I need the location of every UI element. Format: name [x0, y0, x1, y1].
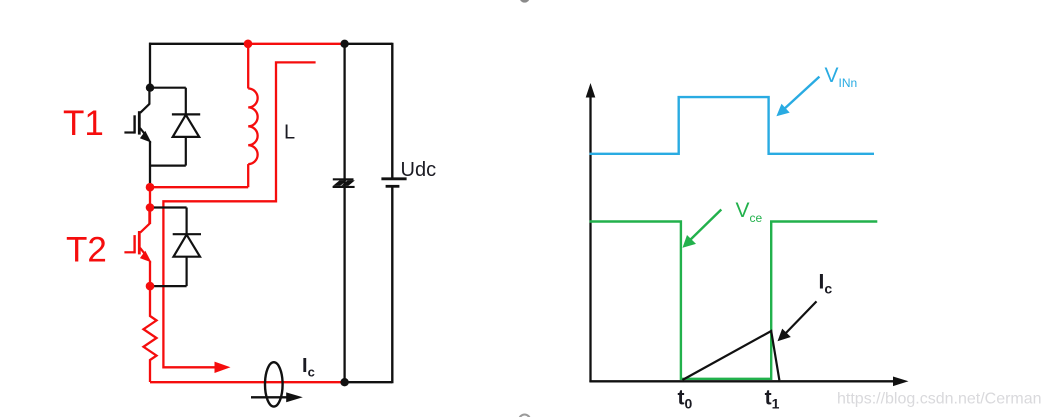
- svg-text:Ic: Ic: [819, 271, 833, 297]
- node: red junction T2 collector: [146, 203, 155, 212]
- svg-text:T2: T2: [66, 231, 107, 270]
- svg-text:Udc: Udc: [401, 159, 437, 181]
- diode D2 (antiparallel with T2, black): [154, 208, 201, 287]
- arrowhead: red loop arrow: [215, 362, 231, 373]
- node: top middle junction: [340, 40, 348, 48]
- svg-text:Ic: Ic: [302, 355, 315, 380]
- decorative gray ring bottom: [519, 415, 530, 417]
- wire: top rail middle (red): [248, 43, 345, 45]
- wire: left rail T1 collector feed: [149, 43, 151, 88]
- resistor R (red zigzag): [144, 286, 157, 382]
- node: T1 collector junction: [146, 84, 154, 92]
- diode Z (double-z symbol on middle rail): [333, 178, 355, 188]
- decorative gray blob top: [519, 0, 529, 3]
- waveform VINn (blue): [590, 97, 875, 154]
- svg-text:t1: t1: [765, 387, 780, 412]
- svg-text:https://blog.csdn.net/Cerman: https://blog.csdn.net/Cerman: [837, 391, 1042, 408]
- current probe (ellipse): [265, 362, 283, 406]
- svg-text:L: L: [284, 122, 295, 144]
- wire: top rail left (black): [149, 43, 248, 45]
- x axis: [589, 380, 895, 382]
- svg-text:t0: t0: [678, 387, 693, 412]
- transistor Q2 IGBT T2 (red): [124, 208, 151, 263]
- waveform Vce (green): [590, 222, 878, 379]
- arrow: probe current direction: [251, 396, 288, 398]
- diode D1 (antiparallel with T1): [149, 88, 200, 166]
- arrow: green pointer: [688, 210, 722, 243]
- voltage source Udc (battery): [381, 43, 406, 384]
- node: red junction (inductor return): [146, 183, 155, 192]
- wire: red rail between junctions: [149, 187, 151, 224]
- wire: top rail right (black): [345, 43, 392, 45]
- wire: T1 emitter lead: [149, 141, 151, 187]
- arrow: black pointer to ramp: [784, 301, 817, 335]
- transistor Q1 IGBT T1: [124, 88, 151, 143]
- svg-text:VINn: VINn: [825, 64, 858, 90]
- node: top red junction (inductor tap): [244, 40, 253, 49]
- svg-text:Vce: Vce: [736, 199, 763, 225]
- waveform Ic ramp (black): [682, 331, 779, 380]
- svg-text:T1: T1: [63, 104, 104, 143]
- wire: red current-loop path (open end top): [163, 62, 315, 367]
- node: bottom middle junction: [340, 378, 348, 386]
- wire: bottom rail black: [345, 381, 393, 383]
- wire: red horizontal to inductor bottom: [150, 186, 248, 188]
- arrow: blue pointer: [783, 77, 820, 111]
- wire: bottom rail red: [150, 381, 345, 383]
- inductor L (red coil): [248, 44, 257, 187]
- wire: middle rail: [343, 44, 345, 382]
- node: red junction T2 emitter: [146, 282, 155, 291]
- y axis: [589, 96, 591, 382]
- wire: T2 emitter lead (red): [149, 261, 151, 286]
